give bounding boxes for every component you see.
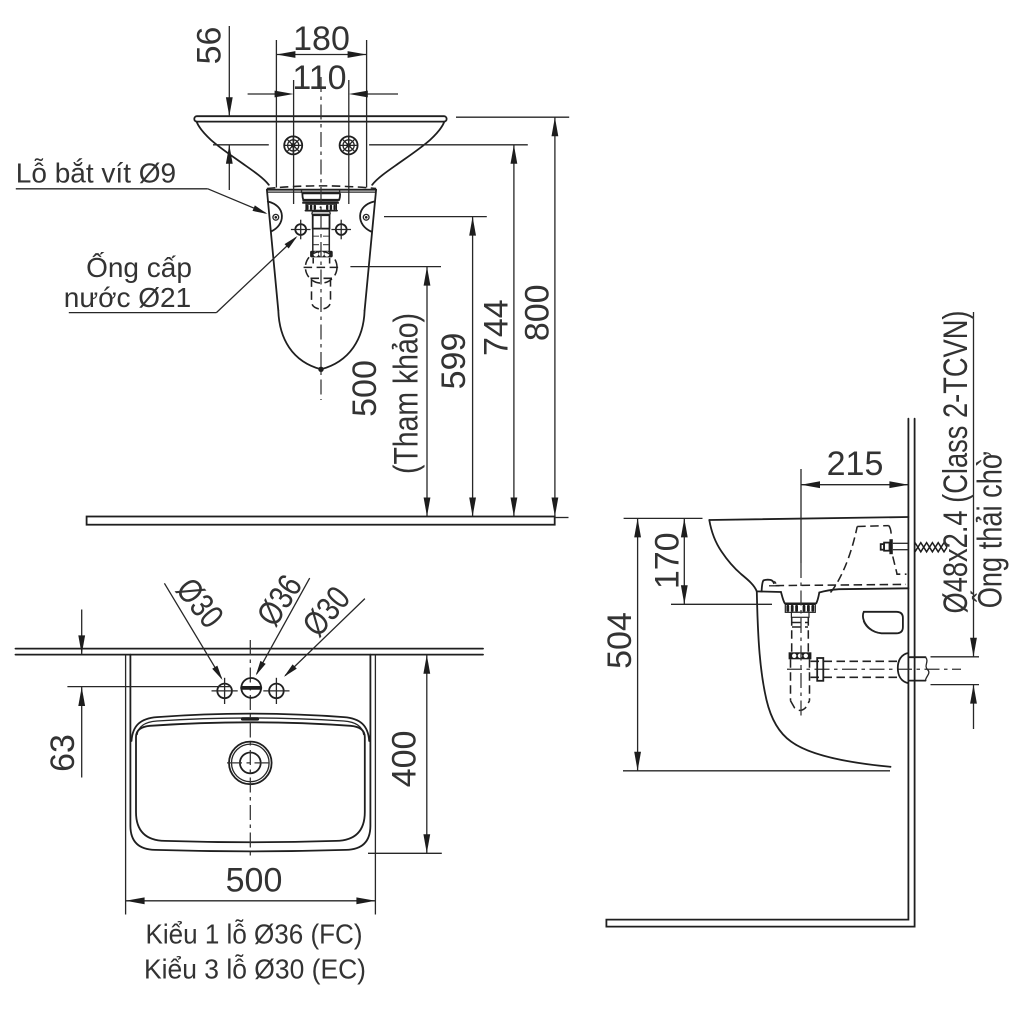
pedestal left side: [267, 190, 278, 311]
svg-text:215: 215: [827, 445, 884, 483]
right extension lines: [456, 116, 569, 118]
basin outer outline plan: [130, 655, 370, 852]
svg-text:Kiểu 3 lỗ Ø30 (EC): Kiểu 3 lỗ Ø30 (EC): [144, 953, 366, 984]
hanger bolt nut: [884, 543, 889, 551]
sump: [781, 592, 819, 603]
rim top side: [709, 517, 908, 520]
trap arm dashed: [811, 660, 900, 662]
dim 110: [248, 59, 398, 204]
basin rim bar: [194, 116, 446, 121]
pedestal top dashed arc: [267, 186, 376, 189]
leader O30 left: [164, 571, 230, 681]
trap coupling nut: [789, 652, 812, 659]
dim 63: [44, 610, 85, 778]
strainer nut side: [785, 604, 815, 617]
dim 500 plan: [126, 862, 376, 905]
left ear hole: [273, 214, 279, 220]
dim 180: [276, 20, 366, 188]
215 ext vertical: [800, 469, 802, 563]
hole O30 right: [263, 678, 289, 704]
S break: [926, 657, 929, 680]
svg-text:400: 400: [386, 731, 424, 788]
trap ball dashed: [305, 251, 337, 283]
plan centerline: [249, 640, 251, 856]
svg-text:180: 180: [293, 20, 350, 58]
hole O36 center: [240, 678, 262, 698]
dim 56: [190, 26, 232, 190]
pedestal bottom dot: [318, 367, 323, 372]
rim arc2: [137, 718, 364, 735]
supply pipe: [313, 215, 330, 228]
lower pipe dashed: [790, 659, 792, 701]
overflow lip tab: [762, 580, 774, 592]
hole O30 left: [212, 678, 238, 704]
svg-text:nước Ø21: nước Ø21: [64, 282, 191, 313]
63 ext line: [67, 686, 231, 688]
svg-text:744: 744: [477, 299, 515, 356]
deck back arc: [132, 714, 370, 741]
svg-text:Kiểu 1 lỗ Ø36 (FC): Kiểu 1 lỗ Ø36 (FC): [146, 919, 363, 950]
drain crosshair: [227, 762, 274, 764]
overflow notch: [241, 717, 259, 720]
lip ledge lines: [769, 585, 780, 587]
dashed boss top: [857, 525, 889, 528]
bowl back dashed: [831, 527, 858, 593]
svg-text:Lỗ bắt vít Ø9: Lỗ bắt vít Ø9: [16, 158, 176, 189]
screw S2: [340, 136, 358, 154]
inner rim rect: [136, 722, 365, 842]
centerline front: [320, 77, 322, 400]
dim 800: [519, 117, 559, 516]
svg-text:56: 56: [190, 27, 228, 65]
svg-text:500: 500: [346, 360, 384, 417]
svg-text:63: 63: [44, 734, 82, 772]
dashed below bolt: [893, 557, 907, 575]
trap arm centerline: [787, 668, 961, 670]
faucet shank stubs above deck: [301, 190, 303, 194]
pedestal U bottom: [278, 311, 364, 370]
svg-text:Ống thải chờ: Ống thải chờ: [971, 451, 1010, 608]
slip collar: [817, 658, 823, 681]
dim 400: [368, 655, 442, 854]
trap tube dashed: [312, 278, 331, 309]
front profile side: [709, 520, 757, 591]
pipe below: [313, 229, 330, 251]
leader O30 right: [282, 579, 365, 679]
wall and floor band: [606, 419, 914, 927]
underside solid line: [757, 590, 781, 593]
supply hole right: [331, 220, 351, 240]
right ear hole: [363, 214, 369, 220]
leader O36 center: [250, 568, 310, 677]
svg-text:500: 500: [226, 862, 283, 900]
drain circles: [229, 742, 272, 785]
screw line right segment: [369, 144, 528, 146]
right ear: [360, 202, 374, 232]
screw line left segment: [213, 144, 269, 146]
svg-text:Ống cấp: Ống cấp: [86, 251, 192, 283]
left ear: [268, 202, 282, 232]
faucet bell: [302, 193, 340, 200]
neck washers: [312, 212, 331, 215]
pedestal collar lines: [267, 189, 376, 191]
trap ball centerline dashed: [304, 266, 339, 268]
label Ong cap nuoc: [64, 234, 300, 313]
supply hole left: [291, 220, 311, 240]
dashed boss corner: [889, 526, 891, 537]
bolt shaft: [893, 542, 908, 544]
hanger bolt washer: [889, 539, 892, 554]
wall stub pipe: [910, 656, 926, 658]
bell flange lines: [303, 200, 338, 202]
soap recess: [863, 612, 903, 634]
dim pipe OD: [970, 312, 977, 729]
dim 504: [601, 518, 890, 770]
label Lo bat vit: [16, 158, 269, 217]
screw S1: [284, 136, 302, 154]
dim 599: [435, 217, 476, 517]
svg-text:(Tham khảo): (Tham khảo): [387, 313, 425, 474]
hidden bottom dashed: [776, 584, 906, 585]
shelf bar bottom: [87, 517, 555, 525]
lock nut: [310, 251, 333, 258]
svg-text:170: 170: [648, 532, 686, 589]
svg-text:110: 110: [292, 59, 346, 97]
svg-text:504: 504: [601, 612, 639, 669]
trap shoulders dashed: [311, 277, 333, 279]
pipe ext thin lines: [931, 656, 980, 658]
anchor thread: [915, 543, 947, 552]
svg-text:800: 800: [519, 284, 557, 341]
dim 744: [477, 145, 517, 517]
tailpipe dashed: [791, 617, 793, 652]
basin left slope: [197, 122, 269, 185]
dim 170: [624, 518, 772, 604]
ext verticals 500 plan: [125, 655, 127, 915]
toothed ring: [306, 204, 338, 210]
basin right slope: [372, 122, 444, 185]
dim 215: [801, 445, 908, 488]
wall band plan: [16, 648, 484, 650]
pedestal right side: [365, 190, 377, 311]
side drain centerline: [800, 563, 802, 716]
svg-text:599: 599: [435, 333, 473, 390]
svg-text:Ø48x2.4 (Class 2-TCVN): Ø48x2.4 (Class 2-TCVN): [937, 311, 975, 614]
dim 500 front: [346, 267, 430, 517]
pedestal front curve: [757, 591, 891, 766]
wall escutcheon: [898, 653, 908, 683]
